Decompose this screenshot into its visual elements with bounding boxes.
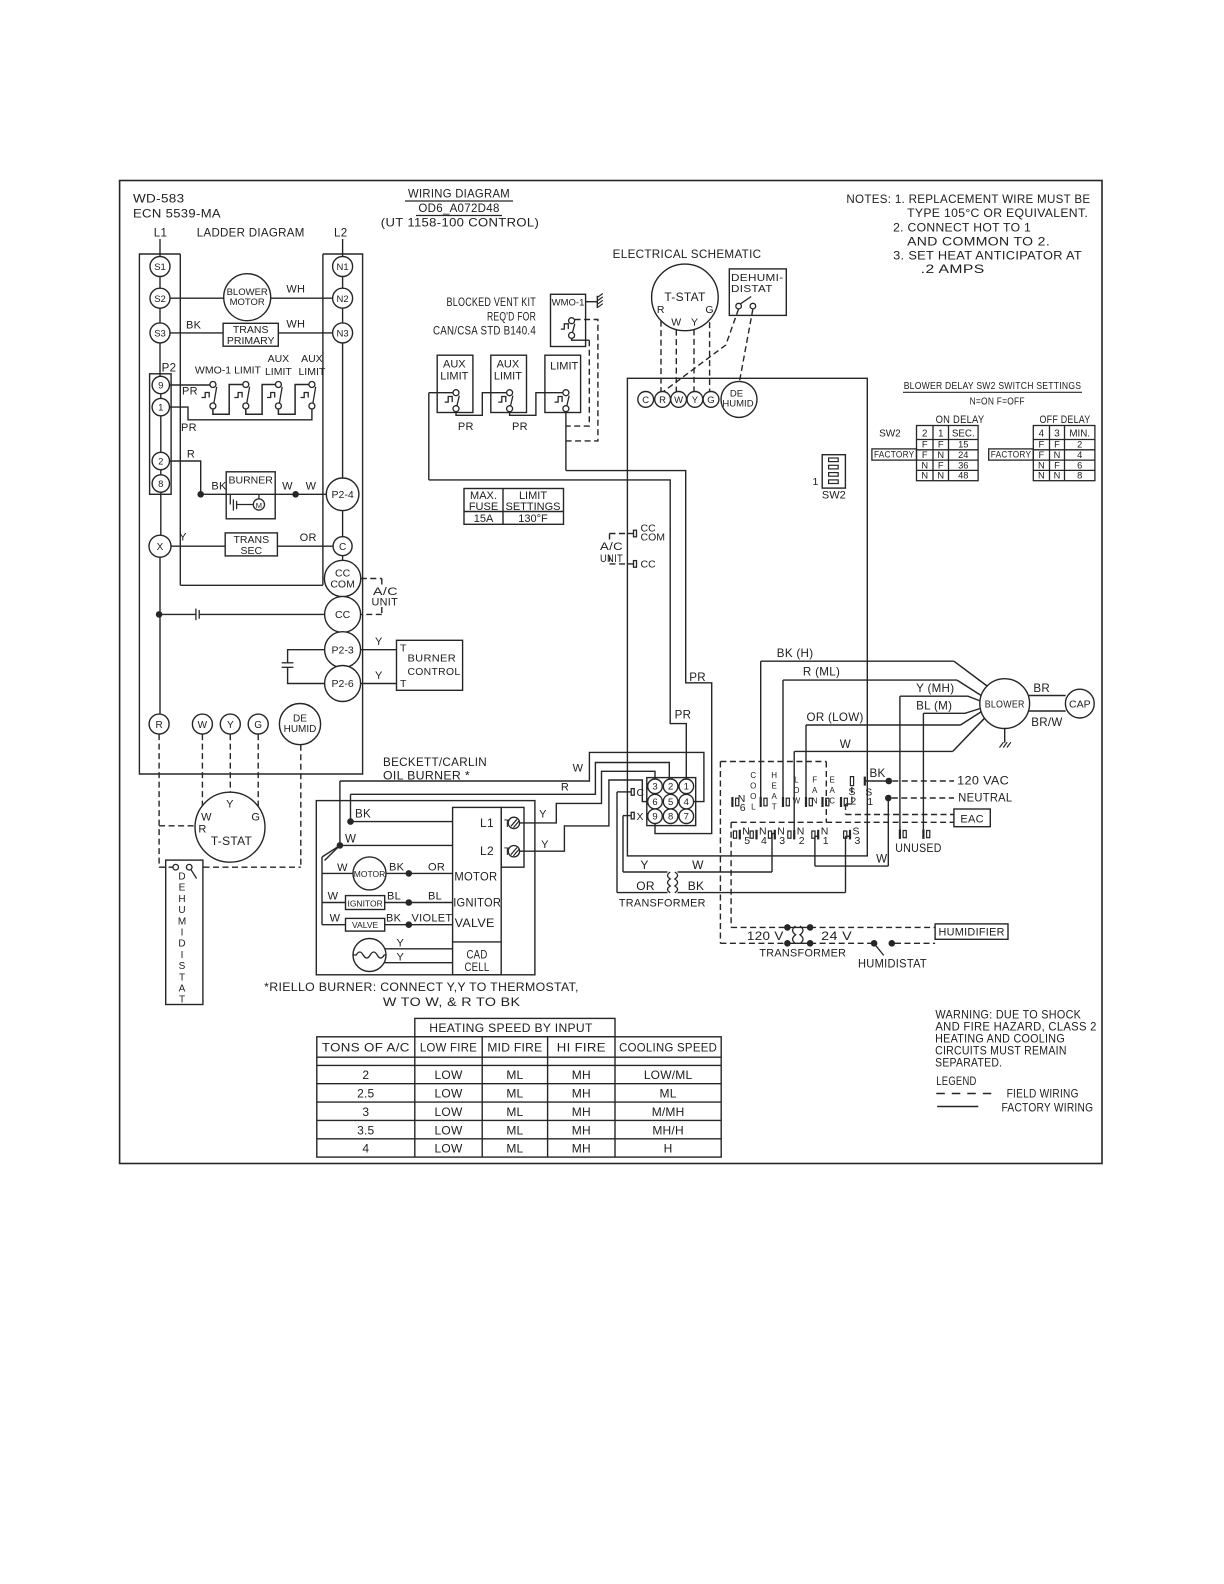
- svg-text:CAN/CSA STD B140.4: CAN/CSA STD B140.4: [433, 325, 536, 338]
- svg-text:2: 2: [668, 782, 673, 793]
- svg-text:N1: N1: [337, 262, 349, 273]
- svg-text:ELECTRICAL SCHEMATIC: ELECTRICAL SCHEMATIC: [613, 248, 762, 261]
- svg-text:LOW: LOW: [435, 1068, 463, 1082]
- svg-text:C: C: [829, 797, 835, 806]
- svg-text:T-STAT: T-STAT: [211, 834, 253, 848]
- svg-text:W: W: [282, 481, 293, 493]
- svg-text:NOTES: 1. REPLACEMENT WIRE MUS: NOTES: 1. REPLACEMENT WIRE MUST BE: [846, 193, 1090, 206]
- svg-text:Y: Y: [640, 858, 648, 872]
- svg-text:BURNER: BURNER: [229, 475, 274, 487]
- svg-text:F: F: [1039, 440, 1045, 450]
- svg-text:ML: ML: [506, 1087, 523, 1101]
- svg-text:F: F: [922, 450, 928, 460]
- svg-text:VIOLET: VIOLET: [412, 913, 453, 925]
- svg-text:BLOWER DELAY SW2 SWITCH SETTIN: BLOWER DELAY SW2 SWITCH SETTINGS: [904, 380, 1082, 392]
- svg-text:BURNER: BURNER: [408, 653, 457, 665]
- svg-text:WMO-1: WMO-1: [552, 298, 585, 309]
- svg-text:F: F: [938, 440, 944, 450]
- svg-text:N: N: [1054, 450, 1061, 460]
- svg-text:MH: MH: [572, 1068, 591, 1082]
- svg-text:Y: Y: [397, 938, 405, 950]
- svg-text:FACTORY WIRING: FACTORY WIRING: [1002, 1102, 1094, 1115]
- svg-text:TRANSFORMER: TRANSFORMER: [759, 948, 846, 960]
- svg-text:IGNITOR: IGNITOR: [347, 898, 382, 908]
- svg-text:8: 8: [1077, 471, 1082, 481]
- svg-text:E: E: [179, 883, 186, 894]
- svg-text:OR: OR: [428, 862, 445, 874]
- svg-text:3: 3: [1054, 428, 1060, 439]
- svg-text:BL: BL: [387, 891, 401, 903]
- svg-text:A: A: [772, 792, 778, 801]
- svg-text:8: 8: [668, 812, 673, 823]
- svg-text:LADDER DIAGRAM: LADDER DIAGRAM: [197, 227, 305, 240]
- svg-text:SW2: SW2: [879, 428, 901, 439]
- svg-text:R: R: [198, 824, 206, 836]
- svg-text:Y: Y: [226, 799, 234, 811]
- svg-text:Y: Y: [541, 839, 549, 851]
- svg-text:4: 4: [1039, 428, 1045, 439]
- svg-text:S2: S2: [154, 294, 166, 305]
- svg-text:CAP: CAP: [1069, 699, 1091, 711]
- svg-text:2: 2: [158, 457, 163, 468]
- svg-text:48: 48: [958, 471, 968, 481]
- svg-text:MID FIRE: MID FIRE: [487, 1042, 542, 1055]
- svg-text:N: N: [812, 797, 818, 806]
- svg-text:T: T: [400, 643, 407, 655]
- svg-text:Y (MH): Y (MH): [916, 682, 954, 695]
- svg-text:Y: Y: [375, 636, 383, 648]
- svg-text:NEUTRAL: NEUTRAL: [958, 792, 1012, 805]
- svg-text:7: 7: [684, 812, 689, 823]
- svg-text:D: D: [178, 872, 185, 883]
- svg-text:R: R: [561, 782, 569, 794]
- svg-text:L: L: [751, 803, 756, 812]
- svg-text:4: 4: [684, 797, 689, 808]
- svg-text:A: A: [812, 786, 818, 795]
- svg-text:SEC: SEC: [241, 545, 263, 557]
- svg-text:ECN 5539-MA: ECN 5539-MA: [133, 208, 221, 221]
- svg-text:LIMIT: LIMIT: [550, 361, 578, 373]
- svg-text:W: W: [692, 858, 704, 872]
- svg-text:F: F: [1054, 440, 1060, 450]
- svg-text:MOTOR: MOTOR: [354, 869, 385, 879]
- svg-text:BK: BK: [688, 879, 705, 893]
- svg-text:T: T: [179, 972, 185, 983]
- svg-text:1: 1: [938, 428, 943, 439]
- svg-text:24 V: 24 V: [821, 929, 852, 943]
- svg-text:W: W: [328, 891, 339, 903]
- svg-text:M: M: [178, 916, 186, 927]
- svg-text:1: 1: [867, 796, 873, 808]
- svg-text:ML: ML: [506, 1068, 523, 1082]
- svg-text:L: L: [794, 775, 799, 784]
- svg-text:W: W: [573, 763, 584, 775]
- svg-text:9: 9: [652, 812, 657, 823]
- svg-text:36: 36: [958, 460, 968, 470]
- svg-text:2.5: 2.5: [357, 1087, 374, 1101]
- svg-text:O: O: [750, 792, 756, 801]
- svg-text:IGNITOR: IGNITOR: [453, 896, 501, 910]
- svg-text:N: N: [921, 460, 928, 470]
- svg-text:W: W: [876, 853, 887, 866]
- svg-text:P2: P2: [162, 363, 177, 375]
- svg-text:C: C: [637, 787, 645, 799]
- svg-text:SW2: SW2: [822, 490, 846, 502]
- svg-text:WH: WH: [286, 319, 305, 331]
- svg-text:ML: ML: [506, 1105, 523, 1119]
- svg-text:MIN.: MIN.: [1069, 428, 1090, 439]
- svg-text:15A: 15A: [474, 513, 494, 525]
- svg-text:MH: MH: [572, 1087, 591, 1101]
- svg-text:VALVE: VALVE: [455, 916, 495, 930]
- svg-text:A: A: [830, 786, 836, 795]
- svg-text:Y: Y: [692, 395, 699, 406]
- svg-text:LOW: LOW: [435, 1105, 463, 1119]
- svg-text:1: 1: [813, 476, 819, 488]
- svg-text:9: 9: [158, 381, 163, 392]
- svg-text:R: R: [659, 395, 666, 406]
- svg-text:T: T: [772, 803, 777, 812]
- svg-text:G: G: [251, 812, 260, 824]
- svg-text:BR/W: BR/W: [1031, 716, 1062, 729]
- svg-text:PRIMARY: PRIMARY: [227, 335, 275, 347]
- svg-text:SEC.: SEC.: [952, 428, 975, 439]
- svg-text:C: C: [642, 395, 649, 406]
- svg-text:I: I: [181, 928, 184, 939]
- svg-text:ML: ML: [506, 1123, 523, 1137]
- svg-text:N: N: [1054, 471, 1061, 481]
- svg-text:AUX: AUX: [301, 353, 323, 365]
- svg-text:N2: N2: [337, 294, 349, 305]
- svg-text:2: 2: [799, 835, 805, 847]
- svg-text:W: W: [306, 481, 317, 493]
- svg-text:1: 1: [684, 782, 689, 793]
- svg-text:A: A: [179, 984, 186, 995]
- svg-text:L1: L1: [154, 227, 168, 240]
- svg-text:*RIELLO BURNER: CONNECT Y,Y T: *RIELLO BURNER: CONNECT Y,Y TO THERMOSTA…: [264, 981, 579, 994]
- svg-text:LOW FIRE: LOW FIRE: [420, 1042, 477, 1055]
- svg-text:Y: Y: [397, 952, 405, 964]
- svg-text:BK: BK: [386, 913, 402, 925]
- svg-text:130°F: 130°F: [518, 513, 548, 525]
- svg-text:OR (LOW): OR (LOW): [807, 711, 864, 724]
- svg-text:5: 5: [668, 797, 673, 808]
- svg-text:W: W: [671, 317, 681, 329]
- svg-text:FIELD WIRING: FIELD WIRING: [1007, 1088, 1079, 1101]
- svg-text:3. SET HEAT ANTICIPATOR AT: 3. SET HEAT ANTICIPATOR AT: [893, 250, 1082, 263]
- svg-text:LOW: LOW: [435, 1142, 463, 1156]
- svg-text:REQ'D FOR: REQ'D FOR: [487, 311, 536, 324]
- svg-text:G: G: [705, 304, 713, 316]
- svg-text:S3: S3: [154, 329, 166, 340]
- svg-text:OR: OR: [300, 532, 317, 544]
- svg-text:N3: N3: [337, 329, 349, 340]
- svg-text:MH/H: MH/H: [652, 1123, 683, 1137]
- svg-text:N: N: [921, 471, 928, 481]
- svg-text:F: F: [938, 460, 944, 470]
- svg-text:C: C: [750, 771, 756, 780]
- svg-text:L1: L1: [480, 816, 494, 830]
- svg-text:UNUSED: UNUSED: [895, 842, 941, 855]
- svg-text:6: 6: [652, 797, 657, 808]
- svg-text:H: H: [771, 771, 777, 780]
- svg-text:W: W: [674, 395, 683, 406]
- svg-text:CC: CC: [335, 609, 351, 621]
- svg-text:PR: PR: [181, 422, 197, 434]
- svg-text:BK: BK: [389, 862, 405, 874]
- svg-text:R: R: [187, 449, 195, 461]
- svg-text:OD6_A072D48: OD6_A072D48: [418, 202, 499, 215]
- svg-text:AUX: AUX: [268, 353, 290, 365]
- svg-text:8: 8: [158, 479, 163, 490]
- svg-text:MOTOR: MOTOR: [454, 870, 497, 884]
- svg-text:FACTORY: FACTORY: [991, 450, 1032, 461]
- svg-text:R: R: [155, 720, 162, 731]
- svg-text:M/MH: M/MH: [652, 1105, 685, 1119]
- svg-text:U: U: [178, 905, 185, 916]
- svg-text:N: N: [1038, 460, 1045, 470]
- svg-text:W TO W, & R TO BK: W TO W, & R TO BK: [383, 996, 521, 1009]
- svg-text:FUSE: FUSE: [469, 501, 498, 513]
- svg-text:MOTOR: MOTOR: [230, 297, 265, 308]
- svg-text:6: 6: [740, 802, 746, 814]
- svg-text:N: N: [937, 471, 944, 481]
- svg-text:W: W: [330, 913, 341, 925]
- svg-text:PR: PR: [512, 421, 528, 433]
- svg-text:OR: OR: [636, 879, 655, 893]
- svg-text:VALVE: VALVE: [352, 920, 378, 930]
- svg-text:W: W: [345, 833, 356, 846]
- svg-text:R (ML): R (ML): [803, 666, 840, 679]
- svg-text:P2-4: P2-4: [332, 489, 354, 501]
- svg-text:L2: L2: [334, 227, 348, 240]
- svg-text:PR: PR: [675, 709, 692, 722]
- svg-text:N: N: [937, 450, 944, 460]
- svg-text:MH: MH: [572, 1142, 591, 1156]
- svg-text:BR: BR: [1033, 682, 1050, 695]
- svg-text:CELL: CELL: [465, 960, 490, 974]
- svg-text:LOW: LOW: [435, 1123, 463, 1137]
- svg-text:BLOWER: BLOWER: [985, 699, 1025, 711]
- svg-text:F: F: [1054, 460, 1060, 470]
- svg-text:COOLING SPEED: COOLING SPEED: [619, 1042, 717, 1055]
- svg-text:W: W: [201, 812, 212, 824]
- svg-text:X: X: [637, 811, 644, 823]
- svg-text:T: T: [179, 995, 185, 1006]
- svg-text:E: E: [830, 775, 835, 784]
- svg-text:HUMIDIFIER: HUMIDIFIER: [939, 927, 1005, 939]
- svg-text:S1: S1: [154, 262, 166, 273]
- svg-text:H: H: [664, 1142, 673, 1156]
- svg-text:W: W: [337, 862, 348, 874]
- svg-text:BK (H): BK (H): [777, 647, 814, 660]
- svg-text:O: O: [750, 781, 756, 790]
- svg-text:LOW/ML: LOW/ML: [644, 1068, 693, 1082]
- svg-text:3: 3: [362, 1105, 369, 1119]
- svg-text:BK: BK: [211, 481, 227, 493]
- svg-text:EAC: EAC: [960, 814, 984, 826]
- svg-text:4: 4: [761, 835, 767, 847]
- svg-text:120 VAC: 120 VAC: [957, 775, 1009, 788]
- svg-text:(UT 1158-100 CONTROL): (UT 1158-100 CONTROL): [381, 217, 539, 230]
- svg-text:AUX: AUX: [497, 359, 520, 371]
- svg-text:MH: MH: [572, 1123, 591, 1137]
- svg-text:X: X: [157, 542, 164, 553]
- svg-text:Y: Y: [179, 532, 187, 544]
- svg-text:F: F: [812, 775, 817, 784]
- svg-text:6: 6: [1077, 460, 1082, 470]
- svg-text:LIMIT: LIMIT: [298, 366, 325, 378]
- svg-text:R: R: [657, 304, 665, 316]
- svg-text:COM: COM: [641, 532, 666, 544]
- svg-text:PR: PR: [458, 421, 474, 433]
- svg-text:SETTINGS: SETTINGS: [505, 501, 560, 513]
- svg-text:HUMIDISTAT: HUMIDISTAT: [858, 958, 927, 971]
- svg-text:D: D: [178, 939, 185, 950]
- svg-text:ML: ML: [506, 1142, 523, 1156]
- svg-text:LIMIT: LIMIT: [265, 366, 292, 378]
- svg-text:T: T: [400, 678, 407, 690]
- svg-text:TYPE 105°C OR EQUIVALENT.: TYPE 105°C OR EQUIVALENT.: [907, 207, 1088, 220]
- svg-text:2: 2: [1077, 440, 1082, 450]
- svg-text:E: E: [772, 781, 777, 790]
- svg-text:1: 1: [158, 403, 163, 414]
- svg-text:WD-583: WD-583: [133, 193, 185, 206]
- svg-text:F: F: [1039, 450, 1045, 460]
- svg-text:CONTROL: CONTROL: [408, 666, 461, 678]
- svg-text:G: G: [254, 720, 262, 731]
- svg-text:4: 4: [362, 1142, 369, 1156]
- svg-text:3: 3: [855, 835, 861, 847]
- svg-text:1: 1: [823, 835, 829, 847]
- svg-text:WH: WH: [286, 284, 305, 296]
- svg-text:AND COMMON TO 2.: AND COMMON TO 2.: [907, 236, 1050, 249]
- svg-text:Y: Y: [539, 809, 547, 821]
- svg-text:AUX: AUX: [443, 359, 466, 371]
- svg-text:2: 2: [362, 1068, 369, 1082]
- svg-text:PR: PR: [689, 671, 706, 684]
- svg-text:UNIT: UNIT: [372, 597, 399, 609]
- svg-text:HI FIRE: HI FIRE: [557, 1042, 606, 1055]
- svg-text:P2-3: P2-3: [332, 644, 354, 656]
- svg-text:3: 3: [779, 835, 785, 847]
- svg-text:LIMIT: LIMIT: [234, 365, 261, 377]
- svg-text:WIRING DIAGRAM: WIRING DIAGRAM: [408, 188, 510, 201]
- svg-text:N=ON F=OFF: N=ON F=OFF: [970, 396, 1025, 408]
- svg-text:LIMIT: LIMIT: [494, 371, 522, 383]
- svg-text:LIMIT: LIMIT: [440, 371, 468, 383]
- svg-text:TONS OF A/C: TONS OF A/C: [322, 1042, 410, 1055]
- svg-text:HUMID: HUMID: [722, 399, 753, 410]
- svg-text:T-STAT: T-STAT: [664, 290, 706, 304]
- svg-text:A/C: A/C: [600, 541, 623, 553]
- svg-text:C: C: [339, 542, 346, 553]
- svg-text:M: M: [256, 501, 262, 510]
- svg-text:L2: L2: [480, 844, 494, 858]
- svg-text:CC: CC: [641, 559, 657, 571]
- svg-text:SEPARATED.: SEPARATED.: [935, 1057, 1002, 1070]
- svg-text:4: 4: [1077, 450, 1082, 460]
- svg-text:DISTAT: DISTAT: [731, 283, 773, 295]
- svg-text:F: F: [922, 440, 928, 450]
- svg-text:BECKETT/CARLIN: BECKETT/CARLIN: [383, 756, 487, 769]
- svg-text:W: W: [840, 738, 851, 751]
- svg-text:N: N: [1038, 471, 1045, 481]
- svg-text:ON DELAY: ON DELAY: [936, 414, 985, 426]
- svg-text:3.5: 3.5: [357, 1123, 374, 1137]
- svg-text:3: 3: [652, 782, 657, 793]
- svg-text:ML: ML: [660, 1087, 677, 1101]
- svg-text:Y: Y: [227, 720, 234, 731]
- svg-text:G: G: [707, 395, 714, 406]
- svg-text:TRANSFORMER: TRANSFORMER: [619, 898, 706, 910]
- svg-text:15: 15: [958, 440, 968, 450]
- svg-text:120 V: 120 V: [747, 929, 784, 943]
- svg-text:PR: PR: [182, 386, 198, 398]
- svg-text:BL (M): BL (M): [916, 700, 952, 713]
- svg-text:MH: MH: [572, 1105, 591, 1119]
- svg-text:H: H: [178, 894, 185, 905]
- svg-text:24: 24: [958, 450, 968, 460]
- svg-text:LEGEND: LEGEND: [936, 1075, 976, 1088]
- svg-text:WMO-1: WMO-1: [195, 365, 231, 377]
- svg-text:HEATING SPEED BY INPUT: HEATING SPEED BY INPUT: [429, 1022, 592, 1035]
- svg-text:P2-6: P2-6: [332, 678, 354, 690]
- svg-text:BK: BK: [355, 808, 371, 821]
- svg-text:BK: BK: [186, 320, 202, 332]
- svg-text:2. CONNECT HOT TO 1: 2. CONNECT HOT TO 1: [893, 222, 1031, 235]
- svg-text:COM: COM: [330, 579, 355, 591]
- svg-text:W: W: [198, 720, 208, 731]
- svg-text:I: I: [181, 950, 184, 961]
- svg-text:FACTORY: FACTORY: [874, 450, 915, 461]
- svg-text:LOW: LOW: [435, 1087, 463, 1101]
- svg-text:Y: Y: [375, 670, 383, 682]
- svg-text:S: S: [179, 961, 186, 972]
- svg-text:OFF DELAY: OFF DELAY: [1040, 414, 1091, 426]
- svg-text:BLOCKED VENT KIT: BLOCKED VENT KIT: [447, 296, 537, 309]
- svg-text:BK: BK: [870, 767, 886, 780]
- svg-text:BL: BL: [428, 891, 442, 903]
- svg-text:DE: DE: [293, 714, 307, 725]
- svg-text:Y: Y: [691, 317, 698, 329]
- svg-text:.2 AMPS: .2 AMPS: [921, 263, 985, 276]
- svg-text:2: 2: [922, 428, 927, 439]
- svg-text:HUMID: HUMID: [284, 724, 317, 735]
